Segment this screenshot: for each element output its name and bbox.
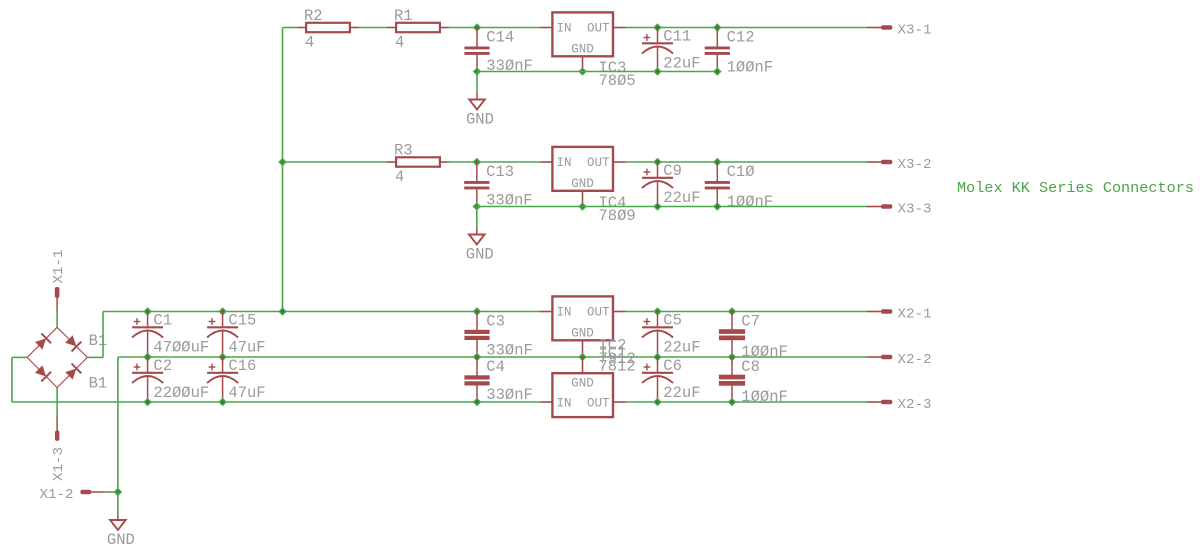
svg-text:OUT: OUT <box>587 397 610 411</box>
svg-text:X3-3: X3-3 <box>898 201 932 217</box>
capacitor C6 <box>657 357 659 372</box>
node C15 top <box>218 307 227 316</box>
diode B1 upper-left <box>34 333 51 350</box>
ground GND below C13 <box>476 207 478 228</box>
node C5 top <box>653 307 662 316</box>
svg-text:GND: GND <box>571 377 594 391</box>
node C14 top <box>473 23 482 32</box>
node trunk middle <box>278 158 287 167</box>
node X1-2 gnd <box>114 488 123 497</box>
op-amp IC2 regulator box <box>541 311 553 313</box>
svg-text:GND: GND <box>571 177 594 191</box>
node C11 bottom <box>653 67 662 76</box>
wire top gnd rail <box>477 71 717 73</box>
pin X2-3 <box>867 401 882 403</box>
node C3 bottom <box>473 353 482 362</box>
node trunk bottom <box>278 307 287 316</box>
svg-text:4: 4 <box>395 34 404 52</box>
svg-text:X3-2: X3-2 <box>898 157 932 173</box>
node C1 bottom <box>143 353 152 362</box>
node C10 top <box>713 158 722 167</box>
svg-text:22uF: 22uF <box>663 189 700 207</box>
svg-text:GND: GND <box>107 531 135 546</box>
node C14 bottom <box>473 67 482 76</box>
wire trunk vertical <box>282 28 284 312</box>
capacitor C15 <box>222 312 224 327</box>
node regulators gnd <box>578 353 587 362</box>
pin X1-3 <box>55 431 59 441</box>
pin X3-2 <box>867 161 882 163</box>
ground GND below X1-2 <box>117 492 119 513</box>
node IC3 gnd <box>578 67 587 76</box>
op-amp IC3 regulator box <box>541 27 553 29</box>
svg-text:X2-3: X2-3 <box>898 397 932 413</box>
node C10 bottom <box>713 202 722 211</box>
node C15 bottom <box>218 353 227 362</box>
capacitor C7 <box>731 312 733 330</box>
wire R2 to R1 <box>358 27 386 29</box>
svg-text:GND: GND <box>571 327 594 341</box>
svg-text:Molex KK Series Connectors: Molex KK Series Connectors <box>957 179 1194 197</box>
node C4 bottom <box>473 398 482 407</box>
capacitor C1 <box>147 312 149 327</box>
wire R3 to IC4 <box>448 161 541 163</box>
node C11 top <box>653 23 662 32</box>
op-amp IC1 regulator box <box>541 401 553 403</box>
svg-text:X1-2: X1-2 <box>40 487 74 503</box>
svg-text:C5: C5 <box>663 312 682 330</box>
wire corner up to plus rail <box>102 312 104 358</box>
wire gnd drop to X1-2 <box>117 357 119 492</box>
wire bridge right to corner <box>87 356 103 358</box>
svg-text:R3: R3 <box>394 142 413 160</box>
svg-text:IN: IN <box>557 306 572 320</box>
svg-text:47ØØuF: 47ØØuF <box>153 338 209 356</box>
wire IC3 out rail <box>626 27 867 29</box>
capacitor C9 <box>657 162 659 177</box>
svg-text:R2: R2 <box>304 7 323 25</box>
svg-text:C1: C1 <box>153 312 172 330</box>
pin X3-3 <box>867 206 882 208</box>
svg-text:C1Ø: C1Ø <box>727 163 755 181</box>
svg-text:22uF: 22uF <box>663 54 700 72</box>
capacitor C11 <box>657 28 659 43</box>
svg-text:X1-1: X1-1 <box>51 249 67 283</box>
wire left down <box>11 357 13 402</box>
capacitor C16 <box>222 357 224 372</box>
capacitor C13 <box>476 162 478 182</box>
svg-text:C13: C13 <box>486 163 514 181</box>
node C12 bottom <box>713 67 722 76</box>
capacitor C14 <box>476 28 478 48</box>
svg-text:22uF: 22uF <box>663 338 700 356</box>
wire X1-2 to junction <box>105 491 118 493</box>
svg-text:OUT: OUT <box>587 156 610 170</box>
svg-text:C7: C7 <box>741 312 760 330</box>
wire plus rail left part <box>103 311 541 313</box>
svg-text:IN: IN <box>557 22 572 36</box>
svg-text:C8: C8 <box>741 358 760 376</box>
wire bridge to X1-3 <box>56 388 58 417</box>
capacitor C8 <box>731 357 733 375</box>
node C3 top <box>473 307 482 316</box>
wire minus rail right part <box>626 401 867 403</box>
pin X1-1 <box>55 287 60 298</box>
svg-text:OUT: OUT <box>587 22 610 36</box>
diode bridge B1 frame <box>27 327 57 357</box>
svg-text:22ØØuF: 22ØØuF <box>153 384 209 402</box>
svg-text:78Ø5: 78Ø5 <box>599 72 636 90</box>
wire plus rail right part <box>626 311 867 313</box>
svg-text:4: 4 <box>395 168 404 186</box>
resistor R1 <box>387 27 395 29</box>
svg-text:GND: GND <box>466 246 494 264</box>
node C9 bottom <box>653 202 662 211</box>
svg-text:1ØØnF: 1ØØnF <box>741 388 788 406</box>
svg-text:1ØØnF: 1ØØnF <box>727 193 774 211</box>
wire trunk to R3 <box>283 161 387 163</box>
svg-text:22uF: 22uF <box>663 384 700 402</box>
pin X2-1 <box>867 311 882 313</box>
wire IC4 out rail <box>626 161 867 163</box>
svg-text:X3-1: X3-1 <box>898 22 932 38</box>
svg-text:C16: C16 <box>228 357 256 375</box>
diode B1 upper-right <box>64 334 81 351</box>
wire bridge left out <box>12 356 27 358</box>
svg-text:47uF: 47uF <box>228 384 265 402</box>
node C9 top <box>653 158 662 167</box>
svg-text:GND: GND <box>571 43 594 57</box>
diode B1 lower-right <box>64 364 81 381</box>
svg-text:R1: R1 <box>394 7 413 25</box>
svg-text:IN: IN <box>557 397 572 411</box>
resistor R3 <box>387 161 395 163</box>
wire minus rail left part <box>12 401 541 403</box>
svg-text:C14: C14 <box>486 28 514 46</box>
wire top rail segment <box>283 27 297 29</box>
svg-text:IN: IN <box>557 156 572 170</box>
resistor R2 <box>297 27 305 29</box>
svg-text:C2: C2 <box>153 357 172 375</box>
svg-text:C4: C4 <box>486 358 505 376</box>
capacitor C10 <box>716 162 718 182</box>
capacitor C2 <box>147 357 149 372</box>
node C8 bottom <box>728 398 737 407</box>
svg-text:C12: C12 <box>727 28 755 46</box>
wire R1 to IC3 <box>448 27 541 29</box>
svg-text:47uF: 47uF <box>228 338 265 356</box>
capacitor C5 <box>657 312 659 327</box>
svg-text:33ØnF: 33ØnF <box>486 386 533 404</box>
op-amp IC4 regulator box <box>541 161 553 163</box>
node IC4 gnd <box>578 202 587 211</box>
svg-text:78Ø9: 78Ø9 <box>599 207 636 225</box>
diode B1 lower-left <box>34 364 51 381</box>
wire X1-1 to bridge <box>56 312 58 327</box>
node C13 bottom <box>473 202 482 211</box>
svg-text:7812: 7812 <box>599 358 636 376</box>
node C16 bottom <box>218 398 227 407</box>
node C13 top <box>473 158 482 167</box>
node C2 top <box>143 353 152 362</box>
node C12 top <box>713 23 722 32</box>
node C5 bottom <box>653 353 662 362</box>
capacitor C3 <box>476 312 478 331</box>
svg-text:C3: C3 <box>486 312 505 330</box>
svg-text:X2-1: X2-1 <box>898 306 932 322</box>
capacitor C4 <box>476 357 478 376</box>
node C1 top <box>143 307 152 316</box>
pin X1-2 <box>80 490 91 495</box>
node C6 bottom <box>653 398 662 407</box>
svg-text:B1: B1 <box>89 375 108 393</box>
svg-text:X1-3: X1-3 <box>51 447 67 481</box>
svg-text:GND: GND <box>466 111 494 129</box>
pin X2-2 <box>867 356 882 358</box>
node C2 bottom <box>143 398 152 407</box>
capacitor C12 <box>716 28 718 48</box>
svg-text:C15: C15 <box>228 312 256 330</box>
svg-text:X2-2: X2-2 <box>898 352 932 368</box>
svg-text:B1: B1 <box>89 332 108 350</box>
wire middle gnd rail <box>477 206 867 208</box>
svg-text:1ØØnF: 1ØØnF <box>727 58 774 76</box>
svg-text:C9: C9 <box>663 162 682 180</box>
node C7 top <box>728 307 737 316</box>
node C7 bottom <box>728 353 737 362</box>
wire gnd mid rail <box>118 356 867 358</box>
svg-text:4: 4 <box>305 34 314 52</box>
svg-text:C6: C6 <box>663 357 682 375</box>
svg-text:33ØnF: 33ØnF <box>486 57 533 75</box>
pin X3-1 <box>867 27 882 29</box>
svg-text:OUT: OUT <box>587 306 610 320</box>
ground GND below C14 <box>476 72 478 93</box>
svg-text:C11: C11 <box>663 28 691 46</box>
